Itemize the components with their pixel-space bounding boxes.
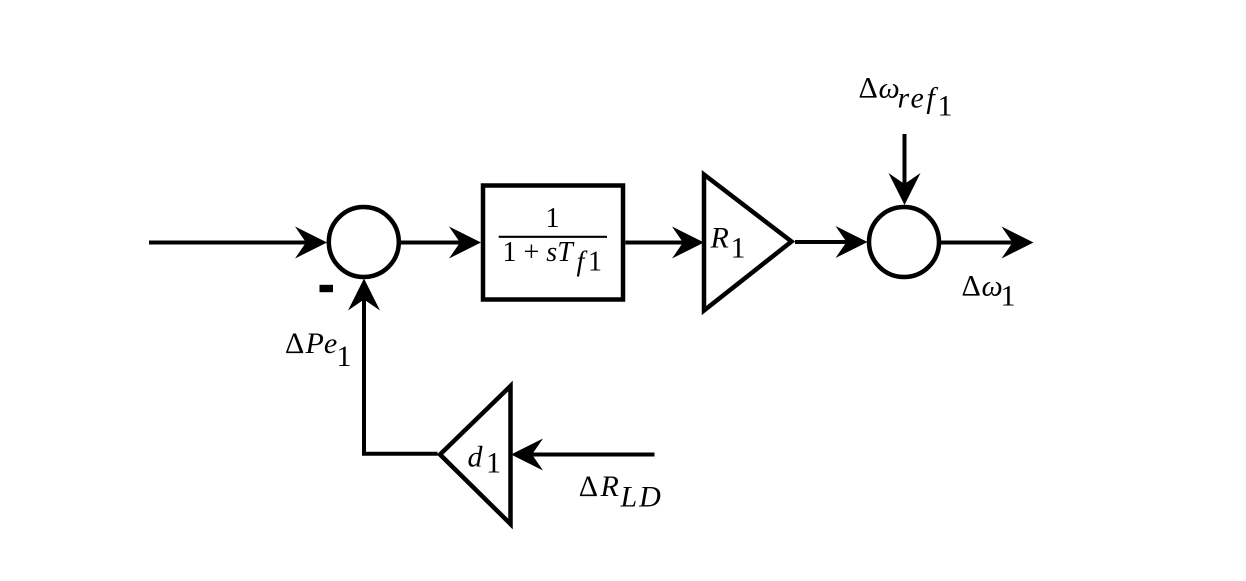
svg-text:Δ: Δ [285, 327, 304, 360]
wire: reference input down into S2 [903, 134, 907, 185]
wire: input line into summing junction S1 [149, 241, 308, 245]
svg-text:R: R [710, 222, 729, 255]
svg-text:Δ: Δ [962, 269, 981, 302]
wire: R1 to summing junction S2 [795, 240, 848, 244]
arrowhead down into S2 [889, 173, 921, 205]
arrowhead into summing junction S1 [295, 227, 327, 259]
wire: S1 to transfer-function block [401, 241, 461, 245]
svg-text:R: R [600, 470, 619, 503]
gain triangle d1 (pointing left) [440, 386, 511, 524]
svg-text:Pe: Pe [305, 327, 338, 360]
svg-text:Δ: Δ [579, 470, 598, 503]
svg-text:1 + sT: 1 + sT [503, 237, 576, 268]
minus sign at S1 [320, 285, 334, 292]
block 1/(1+sT_f1) [483, 186, 623, 300]
svg-text:1: 1 [486, 447, 501, 480]
arrowhead left into d1 [511, 439, 543, 471]
svg-text:1: 1 [337, 340, 352, 373]
svg-text:ω: ω [982, 269, 1003, 302]
arrowhead up into S1 [348, 279, 380, 311]
summing junction S1 [329, 207, 399, 277]
svg-text:LD: LD [620, 481, 663, 514]
svg-text:d: d [468, 441, 484, 474]
svg-text:ω: ω [879, 71, 900, 104]
summing junction S2 [869, 207, 939, 277]
arrowhead into gain R1 [672, 227, 704, 259]
svg-text:1: 1 [588, 247, 602, 278]
svg-text:ref: ref [898, 82, 939, 115]
svg-text:1: 1 [938, 90, 953, 123]
gain triangle R1 [704, 175, 792, 311]
wire: block to gain R1 [625, 241, 684, 245]
svg-text:1: 1 [731, 232, 746, 265]
wire: output from S2 [941, 241, 1014, 245]
wire: load input into d1 [531, 453, 655, 457]
svg-text:Δ: Δ [859, 71, 878, 104]
arrowhead into block [449, 227, 481, 259]
arrowhead into summing junction S2 [836, 226, 868, 258]
fraction bar [499, 236, 607, 238]
output arrowhead [1002, 227, 1034, 259]
svg-text:1: 1 [546, 203, 560, 234]
wire: feedback path from d1 up into S1 (corner at 364,453.7) [364, 298, 438, 454]
svg-text:1: 1 [1001, 280, 1016, 313]
